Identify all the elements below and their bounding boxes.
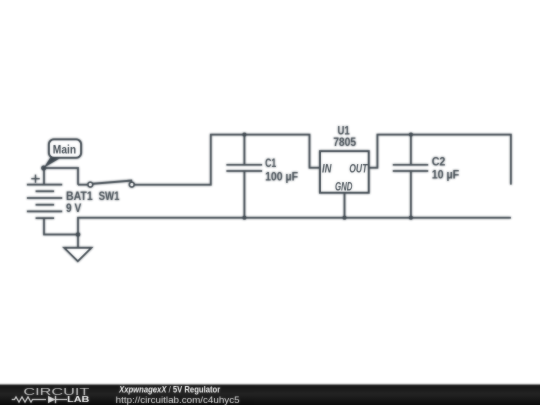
artwork crisp layer <box>27 123 511 261</box>
artwork blurred layer <box>27 123 511 261</box>
footer blurred layer <box>0 385 540 405</box>
footer crisp layer <box>0 385 540 405</box>
